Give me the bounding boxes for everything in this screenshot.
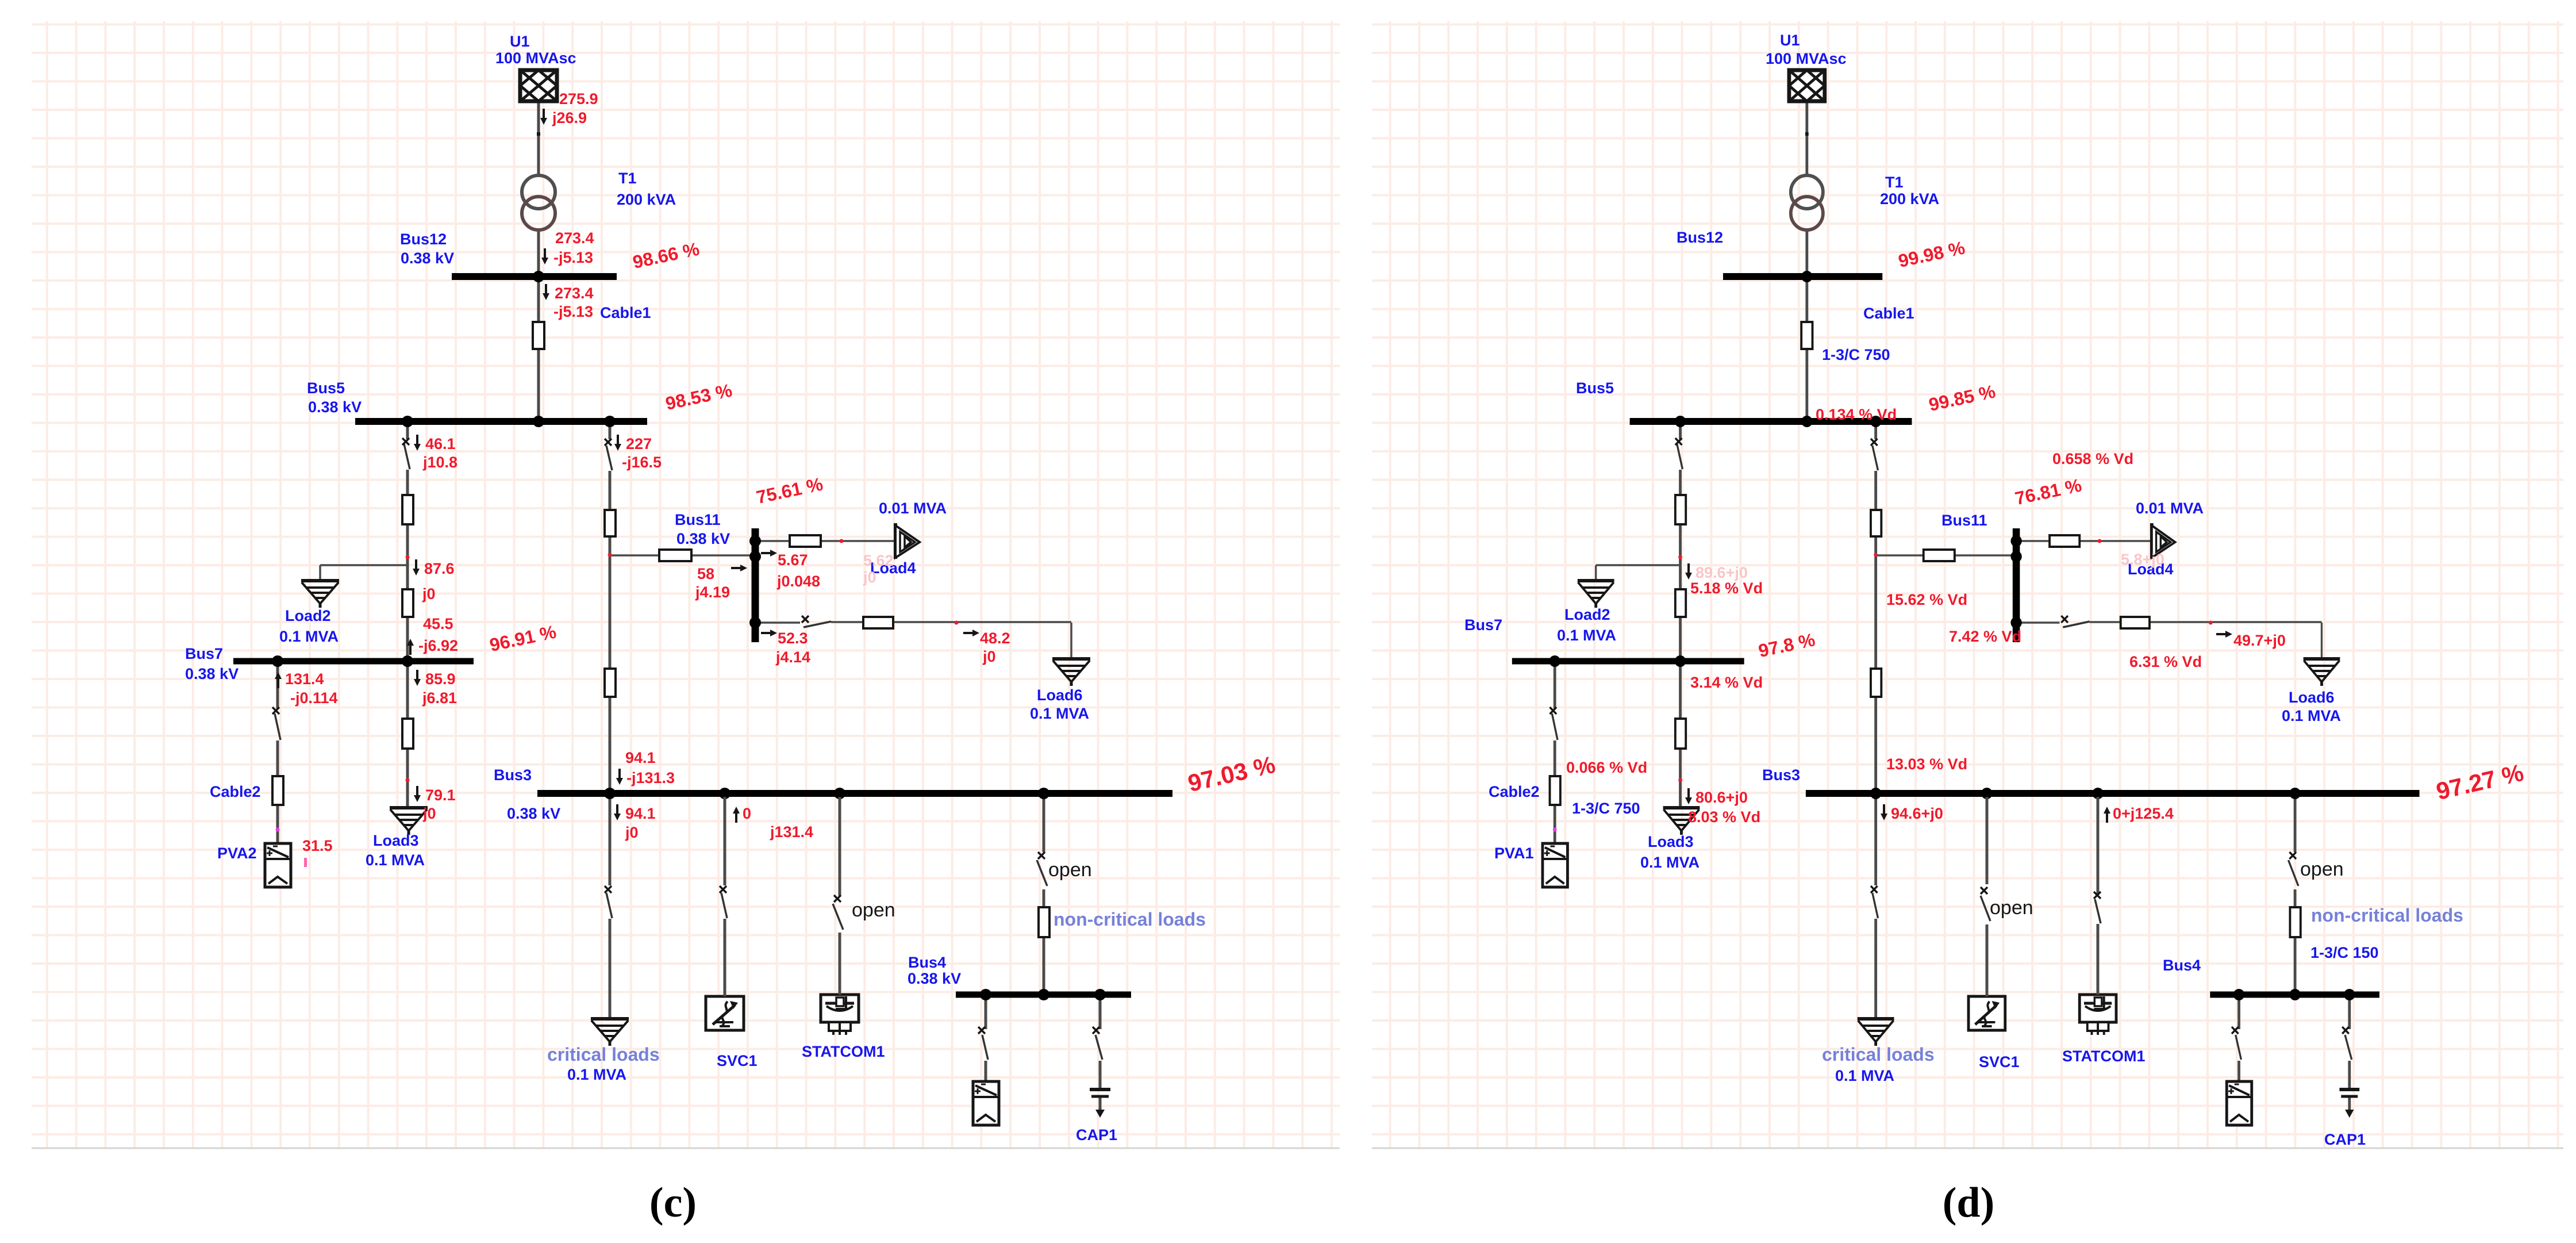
svg-text:87.6: 87.6 [424,560,455,577]
svg-text:Load3: Load3 [373,832,419,849]
svg-text:j0: j0 [625,824,639,841]
svg-text:48.2: 48.2 [980,630,1010,647]
svg-text:100 MVAsc: 100 MVAsc [1766,50,1847,67]
svg-text:-j131.3: -j131.3 [626,769,675,787]
svg-text:SVC1: SVC1 [717,1052,758,1069]
svg-text:0+j125.4: 0+j125.4 [2113,805,2174,822]
svg-text:Cable2: Cable2 [210,783,261,800]
svg-text:1-3/C 150: 1-3/C 150 [2310,944,2379,961]
svg-text:0.38 kV: 0.38 kV [676,530,730,547]
svg-text:j4.14: j4.14 [775,649,810,666]
svg-text:0.1 MVA: 0.1 MVA [1835,1067,1894,1084]
svg-text:52.3: 52.3 [778,630,808,647]
svg-text:0.1 MVA: 0.1 MVA [279,628,339,645]
svg-text:T1: T1 [1885,174,1904,191]
svg-text:15.62 % Vd: 15.62 % Vd [1886,591,1967,608]
svg-text:(d): (d) [1943,1179,1994,1226]
svg-text:94.1: 94.1 [625,749,656,766]
svg-text:0.066 % Vd: 0.066 % Vd [1566,759,1647,776]
svg-text:j6.81: j6.81 [422,689,457,707]
svg-text:89.6+j0: 89.6+j0 [1695,564,1748,581]
svg-text:open: open [1990,897,2033,919]
svg-text:open: open [852,899,895,921]
svg-text:0.134 % Vd: 0.134 % Vd [1816,406,1897,423]
svg-text:Bus5: Bus5 [307,379,345,397]
svg-text:5.62: 5.62 [863,552,894,569]
svg-text:200 kVA: 200 kVA [1880,190,1939,208]
svg-text:80.6+j0: 80.6+j0 [1695,789,1748,806]
svg-text:0.01 MVA: 0.01 MVA [879,500,947,517]
svg-text:critical loads: critical loads [547,1044,660,1065]
svg-text:0.38 kV: 0.38 kV [308,398,362,416]
svg-text:94.1: 94.1 [625,805,656,822]
svg-text:Load6: Load6 [2289,689,2335,706]
svg-text:j0: j0 [982,648,996,665]
svg-text:PVA2: PVA2 [217,845,257,862]
svg-text:U1: U1 [510,33,530,50]
svg-text:j0: j0 [422,585,436,603]
svg-text:0.38 kV: 0.38 kV [908,970,961,987]
svg-text:5.18 % Vd: 5.18 % Vd [1690,580,1763,597]
svg-text:Bus7: Bus7 [185,645,223,662]
svg-text:58: 58 [697,565,714,582]
svg-text:0.1 MVA: 0.1 MVA [366,851,425,869]
svg-text:0.1 MVA: 0.1 MVA [1640,854,1700,871]
svg-text:0.38 kV: 0.38 kV [401,250,454,267]
svg-text:non-critical loads: non-critical loads [1054,909,1206,930]
svg-text:46.1: 46.1 [425,435,456,452]
svg-text:0.38 kV: 0.38 kV [507,805,560,822]
svg-text:(c): (c) [649,1179,697,1226]
svg-text:0.1 MVA: 0.1 MVA [2282,707,2341,724]
svg-text:227: 227 [626,435,652,452]
svg-text:CAP1: CAP1 [1076,1126,1117,1144]
svg-text:non-critical loads: non-critical loads [2311,905,2463,926]
svg-text:31.5: 31.5 [302,837,333,854]
svg-text:0.38 kV: 0.38 kV [185,665,239,682]
svg-text:7.42 % Vd: 7.42 % Vd [1949,628,2021,645]
svg-text:CAP1: CAP1 [2324,1131,2366,1148]
svg-text:Bus5: Bus5 [1576,379,1614,397]
svg-text:79.1: 79.1 [425,787,456,804]
svg-text:U1: U1 [1780,32,1800,49]
svg-text:0: 0 [743,805,751,822]
svg-text:Bus11: Bus11 [675,511,721,528]
svg-text:Cable1: Cable1 [1863,305,1914,322]
svg-text:49.7+j0: 49.7+j0 [2233,632,2286,649]
svg-text:Load3: Load3 [1648,833,1694,850]
svg-text:Bus3: Bus3 [494,766,532,784]
svg-text:273.4: 273.4 [555,285,594,302]
svg-text:-j16.5: -j16.5 [622,454,662,471]
svg-text:j131.4: j131.4 [770,823,813,841]
svg-text:Bus4: Bus4 [908,954,946,971]
svg-text:STATCOM1: STATCOM1 [802,1043,885,1060]
svg-text:Cable1: Cable1 [600,304,651,321]
svg-text:SVC1: SVC1 [1979,1053,2020,1071]
svg-text:0.1 MVA: 0.1 MVA [567,1066,626,1083]
svg-text:45.5: 45.5 [423,615,453,632]
svg-text:131.4: 131.4 [285,670,324,688]
svg-text:6.31 % Vd: 6.31 % Vd [2129,653,2202,670]
svg-text:Bus3: Bus3 [1762,766,1800,784]
svg-text:0.658 % Vd: 0.658 % Vd [2052,450,2133,467]
svg-text:Bus11: Bus11 [1941,512,1987,529]
svg-text:94.6+j0: 94.6+j0 [1891,805,1943,822]
svg-text:8.03 % Vd: 8.03 % Vd [1688,808,1760,826]
svg-text:100 MVAsc: 100 MVAsc [495,49,576,67]
svg-text:Bus12: Bus12 [1677,229,1723,246]
svg-text:5.67: 5.67 [778,551,808,569]
svg-text:-j5.13: -j5.13 [553,303,593,320]
svg-text:open: open [2300,858,2344,880]
svg-text:5.8+j0: 5.8+j0 [2121,551,2164,568]
svg-text:STATCOM1: STATCOM1 [2062,1048,2146,1065]
svg-text:0.01 MVA: 0.01 MVA [2136,500,2204,517]
svg-text:1-3/C 750: 1-3/C 750 [1572,800,1640,817]
svg-text:273.4: 273.4 [555,229,594,247]
svg-text:open: open [1048,859,1092,881]
svg-text:j0.048: j0.048 [776,573,820,590]
svg-text:13.03 % Vd: 13.03 % Vd [1886,755,1967,773]
svg-text:3.14 % Vd: 3.14 % Vd [1690,674,1763,691]
svg-text:-j6.92: -j6.92 [418,637,458,654]
svg-text:1-3/C 750: 1-3/C 750 [1822,346,1890,363]
svg-text:-j5.13: -j5.13 [553,249,593,266]
svg-text:critical loads: critical loads [1822,1044,1935,1065]
svg-text:j26.9: j26.9 [552,109,587,126]
svg-text:-j0.114: -j0.114 [290,689,338,707]
svg-text:j10.8: j10.8 [422,454,457,471]
svg-text:Load2: Load2 [1564,606,1610,623]
svg-text:0.1 MVA: 0.1 MVA [1030,705,1089,722]
svg-text:Cable2: Cable2 [1489,783,1540,800]
svg-text:T1: T1 [618,170,637,187]
svg-text:275.9: 275.9 [559,90,598,108]
svg-text:j0: j0 [422,805,436,822]
svg-text:j4.19: j4.19 [695,584,730,601]
svg-text:Bus4: Bus4 [2163,957,2201,974]
svg-text:0.1 MVA: 0.1 MVA [1557,627,1616,644]
svg-text:Bus7: Bus7 [1464,616,1502,634]
svg-text:j0: j0 [863,569,876,586]
svg-text:Bus12: Bus12 [400,231,447,248]
svg-text:Load2: Load2 [285,607,331,624]
svg-text:200 kVA: 200 kVA [617,191,676,208]
svg-text:85.9: 85.9 [425,670,456,688]
svg-text:PVA1: PVA1 [1494,845,1534,862]
svg-text:Load6: Load6 [1037,686,1083,704]
